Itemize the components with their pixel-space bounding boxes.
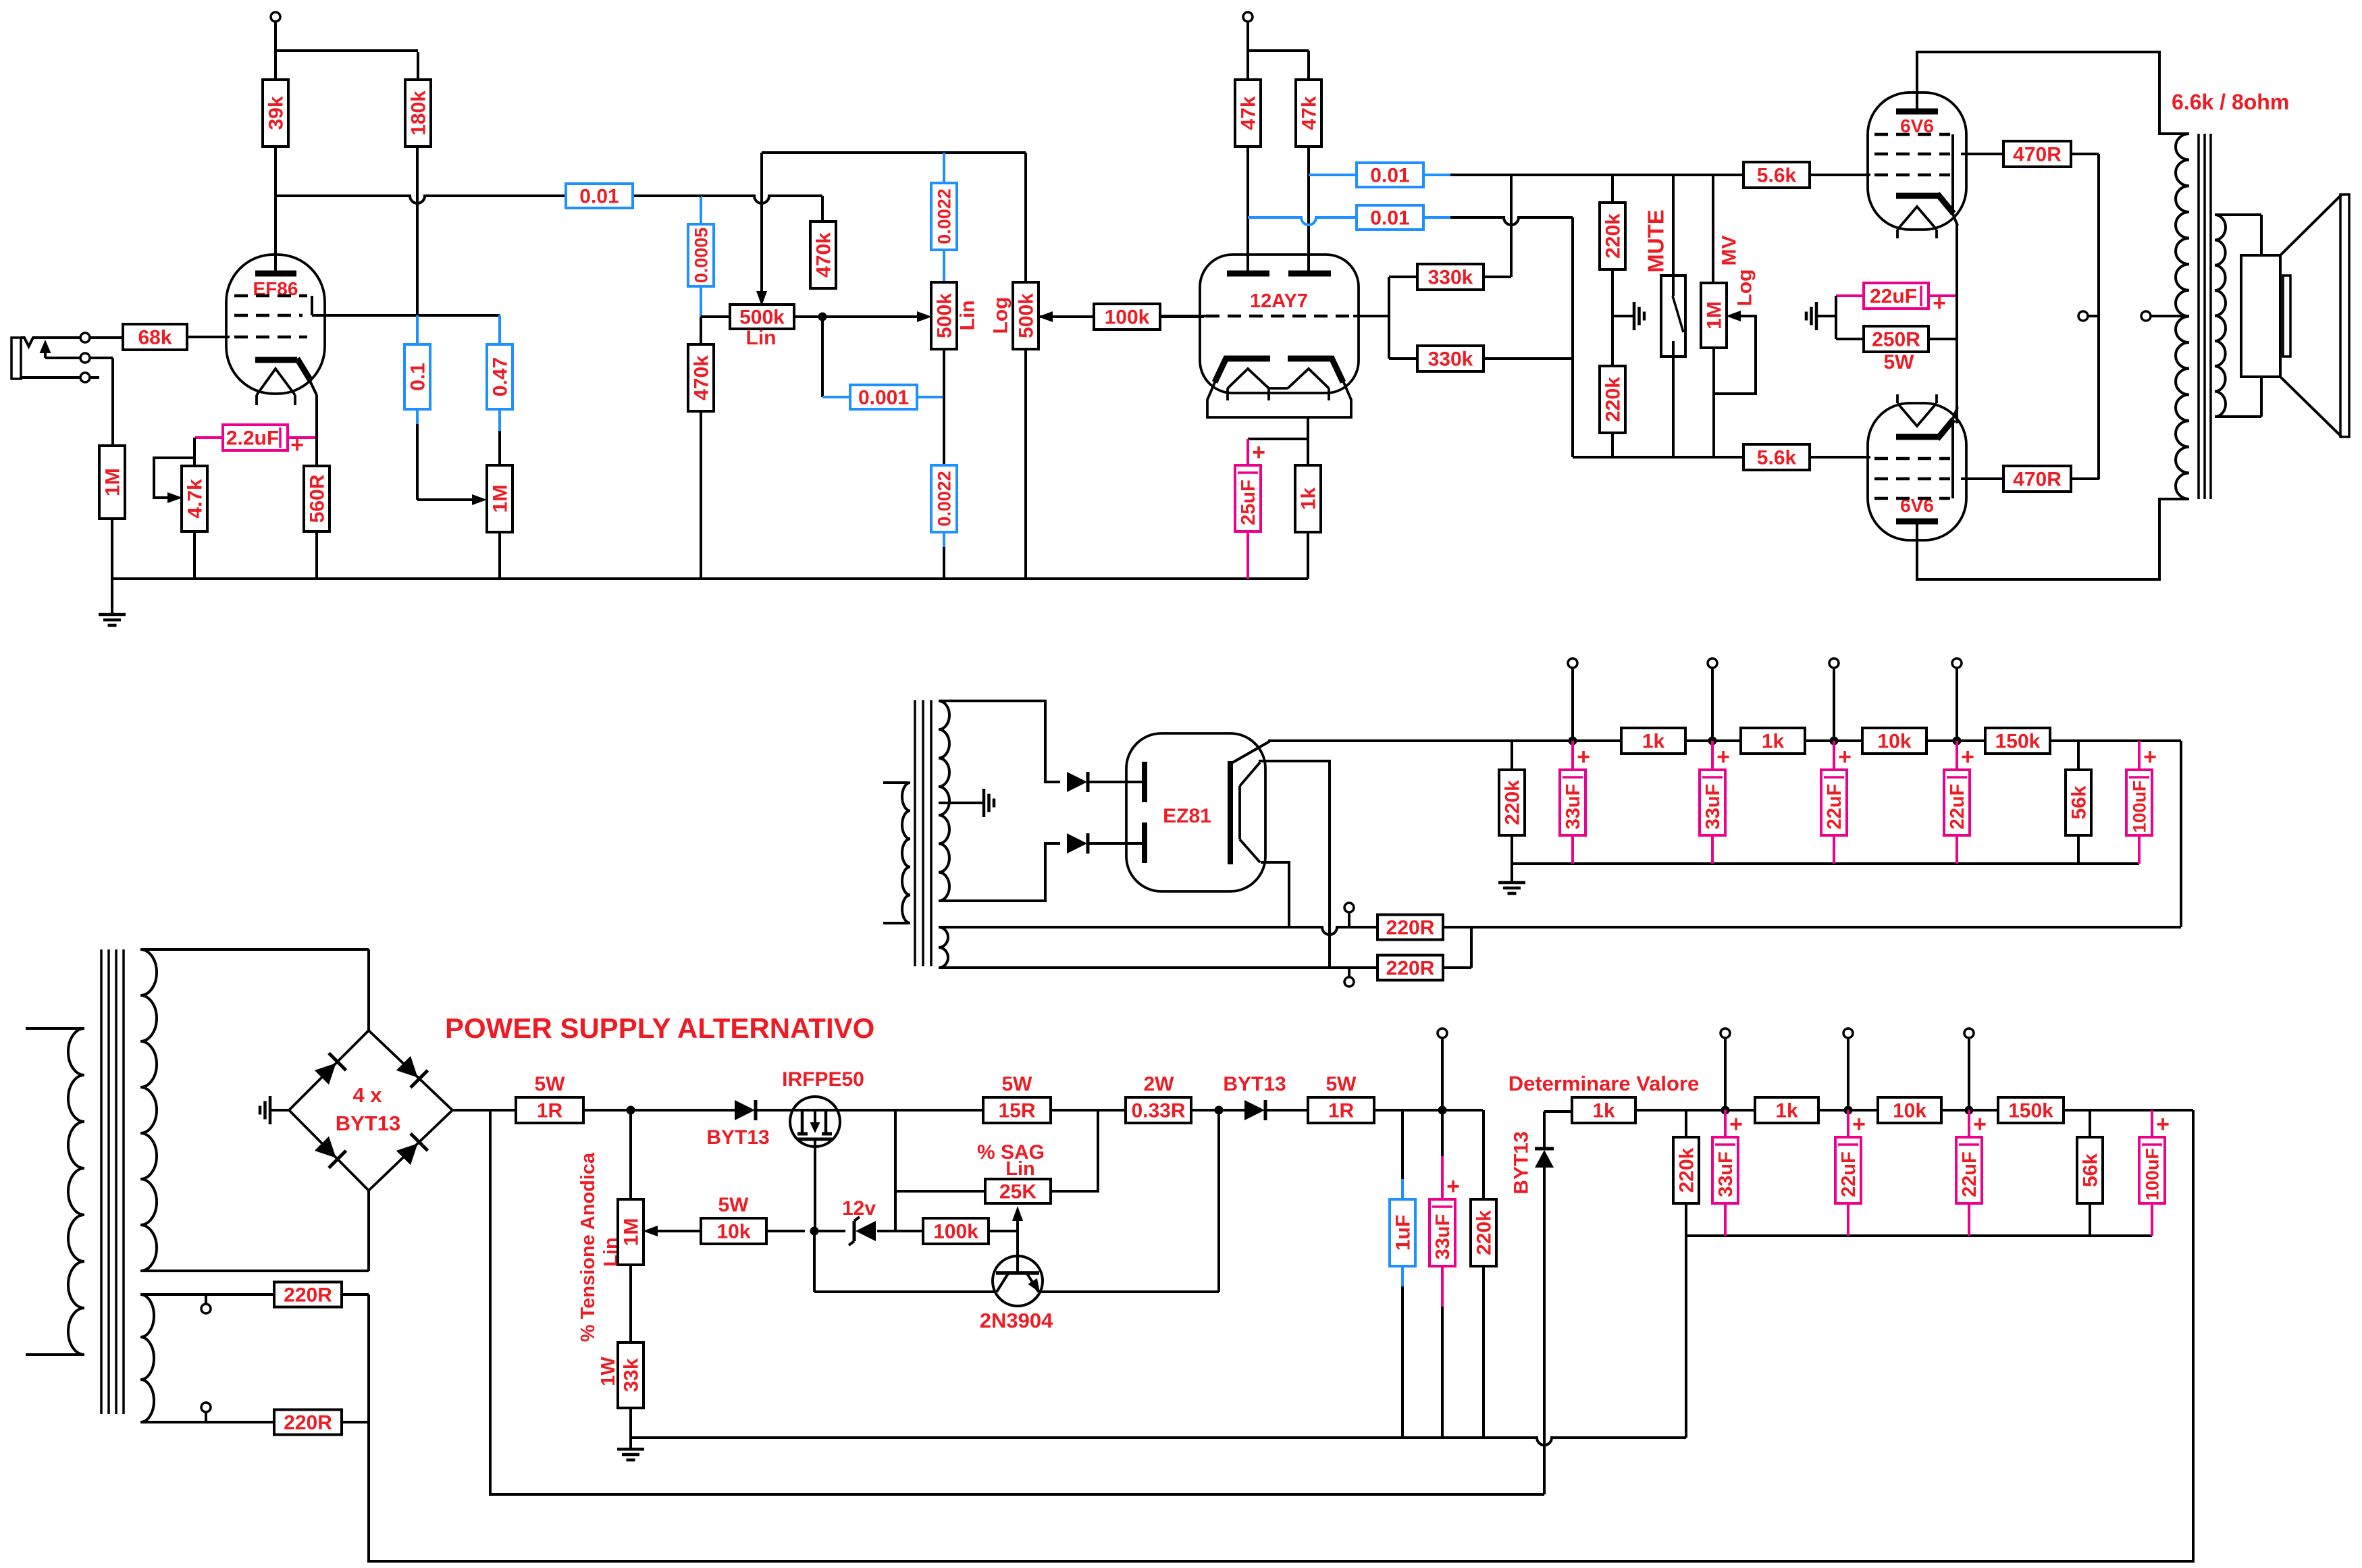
svg-text:150k: 150k [2008,1100,2053,1122]
transformer power (bottom) core [101,949,124,1414]
wire EZ81 cathode B+ output [1268,739,2181,742]
svg-text:+: + [1973,1112,1987,1137]
svg-text:+: + [2143,744,2157,770]
ground symbol (divider) [1612,302,1644,330]
resistor 250R 5W (6V6 cathode) [1836,296,1957,373]
resistor 56k (second chain bleeder end) [2077,1110,2103,1236]
wire transistor collector to gate [814,1231,997,1292]
B+ terminal node 2 (middle) [1708,658,1717,746]
B+ terminal node 2 (bottom) [1843,1028,1853,1115]
resistor 10k (filter dropper 3) [1862,728,1926,754]
resistor 1k (second chain dropper 2) [1755,1097,1878,1123]
resistor 470k (lower, tone) [688,317,714,579]
wire EZ81 filament pin A [1259,761,1330,968]
svg-text:5W: 5W [718,1194,750,1216]
resistor 470R (upper screen) [2003,141,2099,167]
svg-text:220R: 220R [284,1284,332,1307]
resistor 220R (heater hum bottom upper) [274,1282,369,1307]
svg-text:5W: 5W [1326,1073,1357,1095]
resistor 56k (bleeder, middle end) [2066,741,2091,864]
transformer power (middle) core [915,700,931,966]
wire 6V6 cathode rail [1956,223,1958,423]
resistor 39k (EF86 plate load) [263,80,288,147]
svg-text:220k: 220k [1602,213,1625,259]
wire bridge output rail [452,1109,516,1112]
svg-text:+: + [1933,290,1946,316]
svg-text:+: + [1252,440,1265,465]
tube EZ81 rectifier (V5) [1126,733,1269,891]
heater winding wire upper [947,927,1377,935]
resistor 150k (second chain dropper 4) [1998,1097,2193,1123]
svg-text:+: + [1577,744,1590,770]
svg-text:100uF: 100uF [2142,1148,2162,1201]
svg-text:0.01: 0.01 [1370,165,1409,187]
wire 47k-2 to plate 2 [1307,147,1310,272]
jack tip terminal [80,333,123,342]
svg-text:Lin: Lin [957,300,979,331]
wire 1M pot to ground bus [498,532,501,579]
capacitor 1uF (output filter) [1390,1110,1415,1438]
input jack [11,338,81,379]
svg-text:22uF: 22uF [1870,286,1917,308]
ground bus (bottom supply) [631,1438,1686,1445]
svg-text:220k: 220k [1502,780,1524,825]
capacitor 0.0005 [688,196,714,317]
jack shunt contact arrow [40,340,82,358]
pilot terminal lower [201,1403,211,1422]
resistor 5.6k (upper grid stopper) [1743,162,1870,188]
ground symbol (preamp) [99,579,126,625]
capacitor 33uF (filter 2) [1700,741,1730,864]
svg-text:1M: 1M [490,485,512,513]
potentiometer 25K SAG [895,1110,1098,1231]
wire 68k to EF86 grid [187,336,230,338]
transformer power (middle) primary [883,783,910,923]
resistor 560R (EF86 cathode) [304,395,330,579]
wire treble pot bottom through 0.001 node [943,349,945,467]
resistor 220R (heater hum lower) [1377,927,1471,981]
wire volume wiper rail (top) [762,151,1026,154]
HV center tap ground [939,789,994,817]
heater terminal upper [1344,903,1354,927]
svg-text:1k: 1k [1762,731,1785,753]
wire 12AY7 cathode to bias node [1248,417,1308,439]
svg-text:10k: 10k [1877,731,1911,753]
wire junction down to 0.001 [821,317,824,397]
svg-text:500k: 500k [739,307,785,329]
capacitor 22uF (6V6 cathode bypass) [1836,283,1957,316]
resistor 1R 5W (input) [516,1073,735,1123]
wire upper 0.01 output rail [1450,174,1743,176]
regulated B+ terminal [1438,1028,1447,1115]
wire safety diode to 1k [1544,1110,1572,1113]
svg-text:1M: 1M [102,468,124,496]
svg-text:220k: 220k [1602,377,1625,422]
jack ring terminal [80,353,113,446]
svg-text:5W: 5W [1002,1073,1033,1095]
transistor 2N3904 (Q2) [980,1231,1053,1332]
jack sleeve terminal [21,373,99,382]
diode BYT13 (safety, vertical) [1511,1112,1554,1494]
svg-text:470k: 470k [813,232,835,278]
OT core [2199,134,2211,499]
capacitor 22uF (second chain 2) [1835,1110,1866,1236]
resistor 470R (lower screen) [2003,466,2099,492]
svg-text:220k: 220k [1676,1147,1698,1193]
wire raw B+ loop down [490,1110,1544,1494]
svg-text:BYT13: BYT13 [1223,1073,1286,1095]
svg-text:5.6k: 5.6k [1757,447,1797,469]
svg-text:1uF: 1uF [1392,1215,1415,1251]
MOSFET IRFPE50 (Q1) [782,1068,864,1231]
B+ terminal node 3 (bottom) [1964,1028,1974,1115]
filter lower bus (middle) [1512,862,2139,865]
svg-text:+: + [1838,744,1852,770]
svg-text:BYT13: BYT13 [336,1112,400,1135]
resistor 470k (upper, tone) [810,221,836,288]
wire 39k to EF86 plate [274,147,277,272]
resistor 47k (12AY7 plate 1) [1235,80,1261,147]
svg-text:33k: 33k [621,1358,643,1392]
wire 6V6 upper plate to OT [1917,52,2189,134]
capacitor 0.01 (PI coupling lower) [1248,205,1452,230]
resistor 1k (12AY7 cathode) [1295,439,1321,579]
wire EF86 screen to 0.1/0.47 node [312,314,500,317]
potentiometer 1M (feedback trim) [487,465,513,532]
svg-text:BYT13: BYT13 [1511,1131,1533,1194]
capacitor 0.001 [822,385,944,409]
svg-text:1k: 1k [1592,1100,1615,1122]
svg-text:0.01: 0.01 [1370,207,1409,230]
wire HV to bridge bottom [367,1191,370,1271]
svg-text:% Tensione Anodica: % Tensione Anodica [577,1152,599,1342]
svg-text:1k: 1k [1775,1100,1798,1122]
svg-text:180k: 180k [408,90,430,136]
svg-text:33uF: 33uF [1563,784,1584,830]
wire plate line junction to 0.0005 [655,194,701,197]
wire 12AY7 grid exit to 330k pair [1353,277,1417,359]
screen tap terminal [2078,311,2099,321]
capacitor 0.1 (screen bypass) [404,315,430,500]
svg-text:0.47: 0.47 [490,357,512,396]
capacitor 0.0022 (lower) [931,465,957,579]
capacitor 33uF (output filter) [1429,1110,1460,1438]
resistor 10k (second chain dropper 3) [1878,1097,1998,1123]
resistor 220R (heater hum bottom lower) [274,1410,369,1435]
resistor 1k (filter dropper 1) [1621,728,1685,754]
svg-text:4.7k: 4.7k [184,479,207,519]
capacitor 22uF (filter 4) [1944,741,1974,864]
svg-text:+: + [1852,1112,1866,1137]
svg-text:BYT13: BYT13 [706,1126,769,1149]
svg-text:47k: 47k [1298,96,1321,130]
svg-text:68k: 68k [138,327,172,349]
capacitor 100uF (final filter, middle) [2126,741,2157,864]
B+ terminal node 1 (bottom) [1721,1028,1730,1115]
svg-text:22uF: 22uF [1838,1151,1860,1197]
svg-text:4 x: 4 x [352,1083,382,1107]
wire 12AY7 grid entry [1160,315,1206,317]
resistor 100k (transistor base) [895,1218,1018,1244]
svg-text:0.0022: 0.0022 [934,471,954,527]
zener diode 12v [810,1197,896,1245]
svg-text:+: + [1716,744,1730,770]
svg-text:56k: 56k [2080,1153,2102,1187]
resistor 220k (upper divider) [1600,175,1625,316]
wire heater elevation (middle) [2180,741,2182,927]
ground symbol (bottom supply) [617,1438,644,1460]
svg-text:470R: 470R [2013,469,2062,491]
svg-text:0.001: 0.001 [858,387,909,409]
resistor 220k (bleeder, middle filter) [1499,741,1525,864]
diode D2 [1067,833,1143,854]
svg-text:500k: 500k [1016,293,1038,338]
resistor 68k (grid stopper) [123,324,187,350]
diode D1 [1067,772,1143,792]
capacitor 0.47 [487,315,513,465]
svg-text:15R: 15R [998,1100,1035,1122]
wire 47k-1 to plate 1 [1246,147,1249,272]
svg-text:22uF: 22uF [1947,784,1968,830]
svg-text:5W: 5W [535,1073,566,1095]
svg-text:1R: 1R [537,1100,563,1122]
svg-text:MV: MV [1718,236,1741,266]
svg-text:500k: 500k [934,293,956,338]
svg-text:Lin: Lin [746,327,777,349]
pilot terminal upper [201,1295,211,1313]
svg-text:+: + [1729,1112,1743,1137]
resistor 0.33R 2W [1126,1073,1244,1123]
wire screen rail vertical [2097,154,2100,479]
svg-text:Lin: Lin [1005,1158,1035,1180]
capacitor 22uF (second chain 3) [1956,1110,1987,1236]
resistor 1M (grid leak) [99,446,125,519]
svg-text:100k: 100k [933,1221,978,1243]
wire HV top to diode 1 [939,701,1060,782]
wire lower 0.01 output to corner [1450,217,1573,457]
capacitor 25uF (cathode bypass) [1235,439,1265,579]
svg-text:+: + [2156,1112,2170,1137]
svg-text:1M: 1M [621,1218,643,1247]
svg-text:470R: 470R [2013,144,2062,166]
svg-text:22uF: 22uF [1824,784,1845,830]
transformer power (middle) HV secondary [939,701,949,901]
tube 12AY7 (V2) [1200,255,1359,417]
resistor 1k (filter dropper 2) [1741,728,1805,754]
svg-text:12AY7: 12AY7 [1250,290,1308,312]
svg-text:1R: 1R [1328,1100,1355,1122]
svg-text:Log: Log [1734,269,1756,307]
resistor 10k 5W (gate feed) [701,1194,805,1244]
svg-text:6.6k / 8ohm: 6.6k / 8ohm [2172,90,2289,114]
transformer power (bottom) 6.3V secondary [140,1295,274,1422]
svg-text:+: + [1961,744,1974,770]
wire MOSFET out to 15R [840,1109,983,1112]
wire PI output bus (lower) [1573,456,1743,459]
svg-text:100uF: 100uF [2129,780,2149,833]
capacitor 22uF (filter 3) [1821,741,1852,864]
svg-text:MUTE: MUTE [1644,209,1669,273]
potentiometer 500k Log (bass, vertical) [990,153,1053,579]
ground symbol (middle filter) [1498,864,1525,893]
svg-text:POWER SUPPLY ALTERNATIVO: POWER SUPPLY ALTERNATIVO [445,1012,874,1044]
wire 0.1 to 1M pot wiper [417,494,487,505]
B+ terminal node 3 (middle) [1829,658,1839,746]
heater winding wire lower [947,966,1377,969]
svg-text:5W: 5W [1884,351,1915,373]
potentiometer 500k Lin (volume, horizontal) [701,153,794,349]
wire HV bottom to diode 2 [939,843,1060,901]
tube EF86 (pentode V1) [226,255,325,405]
wire volume pot right to junction [794,315,922,318]
capacitor 0.01 (PI coupling upper) [1309,163,1452,187]
node B+ terminal (12AY7 supply) [1243,12,1309,80]
junction dot tone node [818,313,827,321]
svg-text:33uF: 33uF [1432,1214,1454,1260]
svg-text:1k: 1k [1642,731,1665,753]
svg-text:220R: 220R [284,1412,332,1434]
transformer power (bottom) primary [26,1028,84,1355]
speaker [2241,194,2349,437]
transformer power (bottom) HV secondary [140,949,369,1271]
wire HV to bridge top [367,949,370,1030]
ground symbol (bridge negative) [260,1096,289,1124]
capacitor 0.01 (coupling) [566,184,633,208]
transformer output primary [2176,134,2189,499]
svg-text:0.0005: 0.0005 [691,228,711,284]
capacitor 33uF (filter 1) [1560,741,1590,864]
resistor 220R (heater hum upper) [1377,915,2181,940]
transformer power (middle) 6.3V secondary [939,927,948,968]
wire EF86 plate node to coupling cap 0.01 (with hops) [275,196,822,203]
svg-text:0.0022: 0.0022 [934,188,954,244]
wire 6V6 upper screen exit [1961,153,2003,155]
resistor 1k (second chain dropper 1) [1572,1097,1755,1123]
svg-text:22uF: 22uF [1959,1151,1980,1197]
transformer output secondary [2215,215,2261,417]
svg-text:1M: 1M [1704,301,1726,330]
resistor 330k (upper) [1417,175,1511,290]
potentiometer 500k Lin (treble, vertical) [917,282,979,349]
wire B+ feed branch to 39k and 180k [275,51,418,80]
svg-text:47k: 47k [1238,96,1260,130]
B+ terminal node 4 (middle) [1952,658,1962,746]
ground bus (preamp) [112,577,1308,580]
tube 6V6 (lower, V4) [1868,394,1966,540]
wire 4.7k to ground bus [193,531,196,579]
resistor 150k (filter dropper 4) [1985,728,2050,754]
svg-text:Log: Log [990,297,1012,334]
svg-text:10k: 10k [1893,1100,1926,1122]
svg-text:33uF: 33uF [1702,784,1724,830]
resistor 5.6k (lower grid stopper) [1743,444,1870,470]
resistor 220k (second chain bleeder) [1673,1110,1699,1236]
capacitor 100uF (second chain final) [2139,1110,2170,1236]
capacitor 33uF (second chain 1) [1712,1110,1743,1236]
diode BYT13 (series 1) [706,1100,790,1149]
svg-text:33uF: 33uF [1715,1151,1737,1197]
svg-text:220R: 220R [1386,958,1435,980]
svg-text:EZ81: EZ81 [1163,805,1211,827]
svg-text:220R: 220R [1386,917,1435,939]
svg-text:IRFPE50: IRFPE50 [782,1068,864,1091]
svg-text:250R: 250R [1872,329,1920,351]
svg-text:560R: 560R [307,474,329,523]
OT center tap terminal [2141,311,2189,321]
heater terminal lower [1344,968,1354,987]
svg-text:2.2uF: 2.2uF [226,427,279,450]
wire 6V6 lower screen exit [1961,477,2003,480]
svg-text:10k: 10k [716,1221,750,1243]
svg-text:330k: 330k [1428,348,1473,371]
second chain lower bus [1686,1236,2152,1438]
wire 180k down to screen node (crosses plate wire) [416,147,419,315]
resistor 330k (lower) [1417,346,1573,371]
ground symbol (6V6 cathode) [1806,302,1836,330]
svg-text:0.1: 0.1 [407,363,429,391]
svg-text:330k: 330k [1428,267,1473,289]
wire 6V6 lower plate to OT [1917,499,2189,579]
capacitor 2.2uF (cathode bypass) [195,425,317,458]
resistor 1R 5W (output) [1308,1073,1483,1123]
capacitor 0.0022 (upper) [931,153,957,282]
svg-text:1W: 1W [598,1357,619,1386]
node B+ terminal (preamp supply) [271,12,280,52]
svg-text:+: + [1446,1174,1460,1199]
svg-text:25uF: 25uF [1238,479,1259,525]
potentiometer 1M (anode voltage set) [577,1106,701,1342]
wire heater elevation return (bottom) [369,1110,2193,1561]
bridge rectifier 4 x BYT13 [289,1030,452,1191]
svg-text:56k: 56k [2068,785,2091,819]
svg-text:220k: 220k [1473,1210,1496,1255]
tube 6V6 (upper, V3) [1868,93,1966,238]
resistor 180k (screen feed) [405,80,431,147]
wire EZ81 filament pin B [1261,862,1289,927]
svg-text:+: + [290,432,304,458]
resistor 220k (output bleeder) [1471,1110,1496,1438]
resistor 15R 5W [983,1073,1126,1123]
diode BYT13 (series 2) [1223,1073,1308,1120]
svg-text:2N3904: 2N3904 [980,1309,1053,1332]
resistor 220k (lower divider) [1600,316,1625,457]
svg-text:2W: 2W [1144,1073,1175,1095]
B+ terminal node 1 (middle) [1568,658,1577,746]
svg-text:0.33R: 0.33R [1131,1100,1185,1122]
svg-text:150k: 150k [1995,731,2041,753]
svg-text:Determinare Valore: Determinare Valore [1508,1072,1700,1095]
svg-text:25K: 25K [999,1181,1036,1203]
svg-text:470k: 470k [691,355,713,400]
wire transistor emitter to output [1039,1106,1224,1292]
wire 2.2uF left to 4.7k pot [193,438,196,466]
svg-text:1k: 1k [1298,488,1320,511]
wire 0.01 to 470k node [821,196,824,221]
svg-text:39k: 39k [265,96,288,130]
svg-text:5.6k: 5.6k [1757,165,1797,187]
svg-text:0.01: 0.01 [579,186,619,208]
switch MUTE [1644,175,1685,457]
resistor 47k (12AY7 plate 2) [1296,80,1321,147]
resistor 33k 1W [598,1265,644,1438]
svg-text:100k: 100k [1105,307,1150,329]
wire 1M to ground bus [111,519,113,579]
potentiometer 4.7k (cathode trim) [154,458,207,531]
potentiometer 1M Log (master volume) [1701,175,1756,457]
resistor 100k (12AY7 grid) [1038,304,1204,330]
